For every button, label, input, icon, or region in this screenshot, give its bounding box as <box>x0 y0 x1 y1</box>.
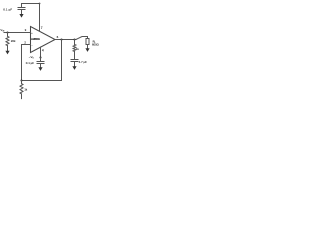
node top corner <box>39 3 41 5</box>
wire to resistor R3 <box>74 40 76 45</box>
wire feedback right vertical <box>61 40 63 81</box>
node input junction <box>6 31 8 33</box>
resistor R2 1k (feedback leg) <box>20 84 23 94</box>
capacitor C2 plates <box>37 61 44 63</box>
wire jog to load RL <box>76 37 88 40</box>
svg-text:1k: 1k <box>24 87 28 91</box>
wire feedback left vertical <box>21 45 23 81</box>
ground arrow below C3 <box>74 62 76 67</box>
capacitor C3 plates <box>71 59 78 61</box>
svg-text:7: 7 <box>41 26 43 30</box>
ground arrow below C1 <box>21 10 23 15</box>
svg-text:4: 4 <box>42 49 44 53</box>
op-amp U1 triangle <box>31 27 56 53</box>
node -Vs junction <box>39 56 41 58</box>
capacitor C1 0.1uF lead <box>21 4 23 8</box>
wire R3 to C3 <box>74 52 76 60</box>
node feedback bottom junction <box>20 79 22 81</box>
wire feedback bottom horizontal <box>22 80 62 82</box>
svg-text:VIN: VIN <box>0 28 4 32</box>
resistor R3 1k (snubber) <box>73 44 76 51</box>
capacitor C2 lead <box>40 58 42 62</box>
svg-text:−: − <box>31 44 33 47</box>
svg-text:1k: 1k <box>76 47 80 51</box>
node snubber junction <box>73 38 75 40</box>
wire inverting input <box>22 44 31 46</box>
capacitor C1 plates <box>18 7 25 9</box>
wire output rail <box>55 39 76 41</box>
resistor R1 20k <box>6 36 9 45</box>
svg-text:6: 6 <box>57 35 59 39</box>
node output feedback junction <box>60 38 62 40</box>
svg-text:LM6161: LM6161 <box>31 37 40 41</box>
resistor RL box <box>86 39 89 45</box>
wire non-inverting input <box>4 32 31 34</box>
svg-text:0.1 µF: 0.1 µF <box>3 7 12 11</box>
svg-text:−VS: −VS <box>29 55 35 59</box>
ground arrow below C2 <box>40 64 42 68</box>
wire pin 4 vertical <box>40 47 42 58</box>
svg-text:20k: 20k <box>11 39 16 43</box>
svg-text:4.7 µF: 4.7 µF <box>79 60 87 64</box>
wire below R2 <box>21 94 23 99</box>
wire top rail from C1 to pin 7 <box>22 3 40 5</box>
wire above R2 <box>21 81 23 84</box>
svg-text:+: + <box>31 32 33 35</box>
ground arrow below R1 <box>7 46 9 51</box>
svg-text:600Ω: 600Ω <box>92 43 99 47</box>
wire pin 7 vertical <box>39 4 41 32</box>
svg-text:3: 3 <box>25 28 27 32</box>
ground arrow below RL <box>87 45 89 49</box>
wire to resistor R1 <box>7 33 9 37</box>
svg-text:0.1 µF: 0.1 µF <box>26 61 34 65</box>
